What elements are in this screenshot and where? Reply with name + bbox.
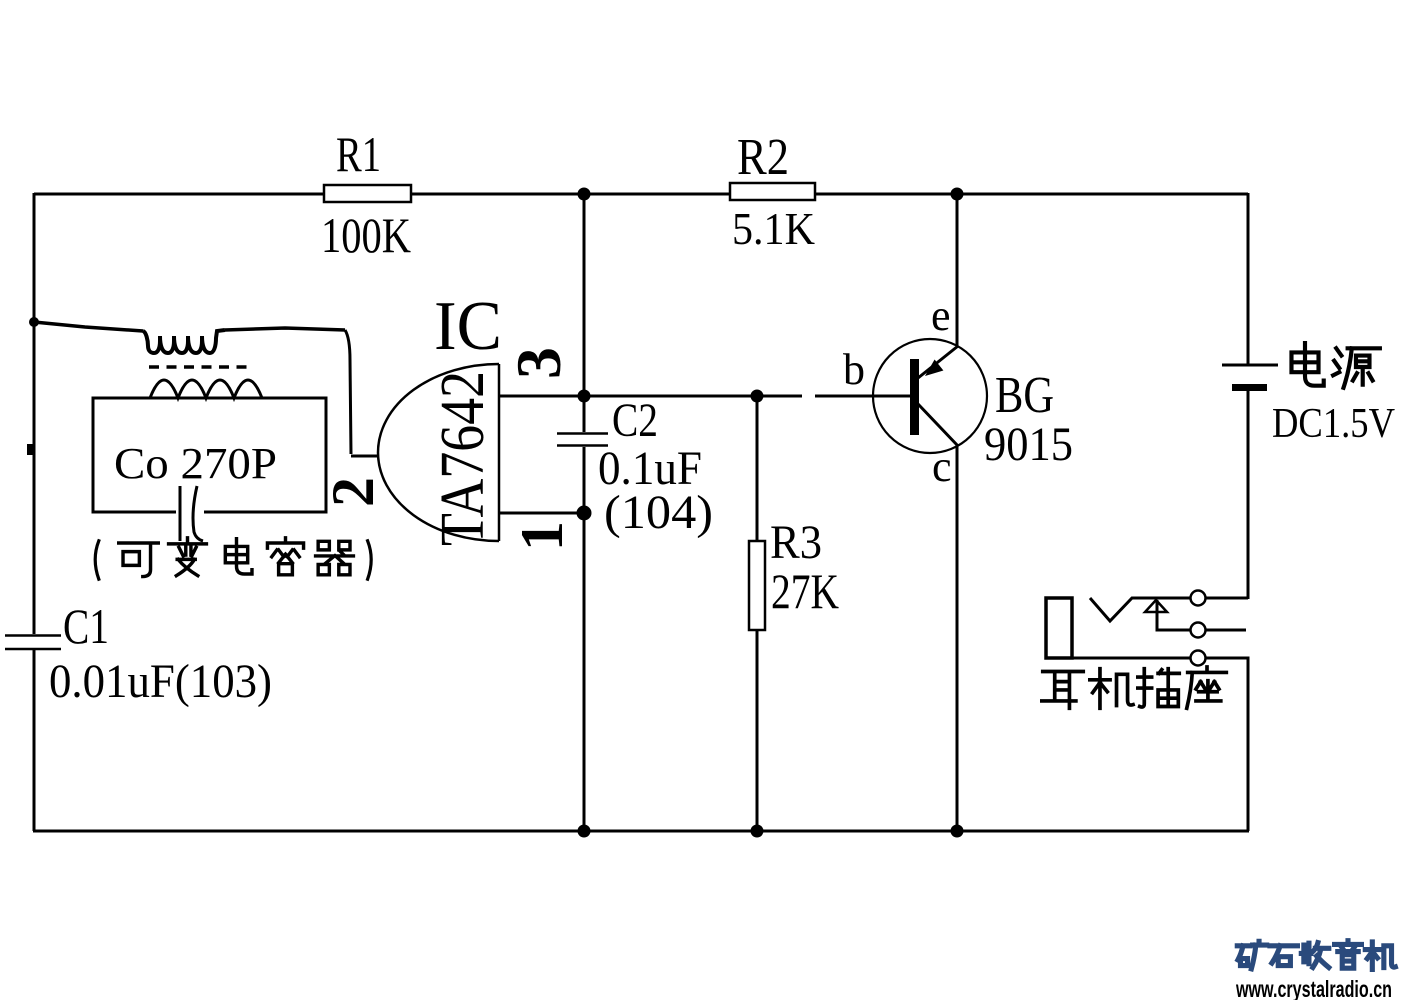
svg-text:BG: BG [995,367,1054,424]
svg-text:Co 270P: Co 270P [114,439,277,488]
svg-text:2: 2 [320,477,386,507]
svg-text:0.01uF(103): 0.01uF(103) [49,655,272,708]
svg-text:C2: C2 [612,394,658,447]
svg-text:TA7642: TA7642 [429,371,497,546]
svg-text:R3: R3 [770,516,822,569]
svg-text:IC: IC [434,288,502,365]
svg-text:www.crystalradio.cn: www.crystalradio.cn [1235,976,1392,1000]
svg-text:DC1.5V: DC1.5V [1272,401,1395,447]
svg-text:100K: 100K [321,207,411,263]
svg-text:3: 3 [503,347,574,379]
svg-text:9015: 9015 [984,418,1073,471]
svg-text:(104): (104) [604,486,713,539]
svg-text:b: b [843,345,865,394]
svg-text:27K: 27K [771,563,839,619]
svg-text:5.1K: 5.1K [732,203,815,254]
svg-text:c: c [932,442,952,491]
svg-text:R2: R2 [737,129,789,186]
svg-text:C1: C1 [63,598,109,654]
svg-text:R1: R1 [336,126,381,182]
svg-text:1: 1 [509,521,575,551]
svg-text:e: e [931,291,951,340]
